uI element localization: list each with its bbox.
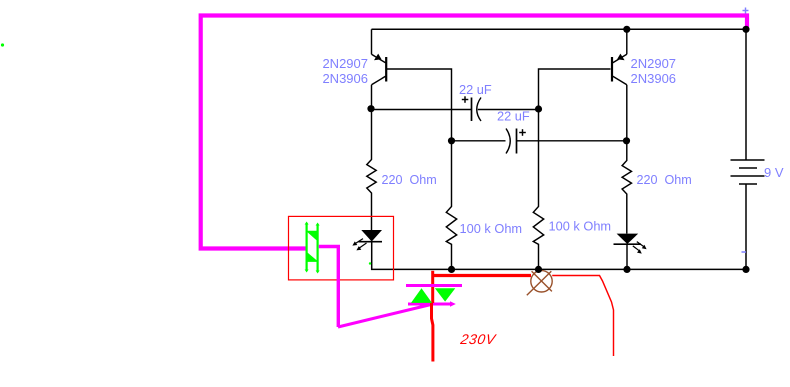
wire: node A to C1 left plate <box>372 109 472 111</box>
svg-text:2N2907: 2N2907 <box>322 56 368 71</box>
wire: Q1 base line to node C <box>387 69 452 141</box>
LED D2 (right branch) <box>614 234 647 270</box>
resistor R2 220 Ohm (right branch) with leads <box>622 141 631 234</box>
capacitor C2 22uF (polarized, + on right) <box>506 129 526 154</box>
triac T1 bottom bar (magenta, with arrow tip) <box>408 301 456 306</box>
junction dot: top rail at battery top <box>742 26 749 33</box>
svg-text:22 uF: 22 uF <box>497 109 530 124</box>
stray green dot (top left) <box>1 43 4 46</box>
wire: C1 right plate to node B <box>478 109 539 111</box>
wire: node C to C2 left arc <box>452 140 506 142</box>
wire: C2 right plate to node D <box>517 140 627 142</box>
junction node D (Q2 collector / C2 right) <box>623 137 630 144</box>
wire: LED D1 cathode to bottom rail corner <box>372 242 746 270</box>
resistor R4 100 k Ohm (Q2 base bias) with leads, crosses C2 line without junction <box>533 110 543 270</box>
wire: magenta mains supply loop (left vertical, top horizontal, right drop, lower horizontal into optocoupler) <box>201 16 747 249</box>
optocoupler U1 box (red) <box>289 216 394 280</box>
svg-text:220 Ohm: 220 Ohm <box>382 173 437 187</box>
junction node B (C1 right / Q2 base / R4 top) <box>535 105 542 112</box>
resistor R1 220 Ohm (left branch) with leads <box>367 110 376 231</box>
optocoupler photo-triac (green) <box>305 222 320 274</box>
junction dot: rail at R3 bottom <box>448 266 455 273</box>
wire: thin red from lamp to mains drop <box>552 276 613 357</box>
svg-text:220 Ohm: 220 Ohm <box>637 173 692 187</box>
resistor R3 100 k Ohm (Q1 base bias) with leads <box>446 141 456 270</box>
battery B1 9V <box>731 29 765 269</box>
stray green dot at LED D1 cathode <box>369 262 371 264</box>
junction dot: rail at LED D2 <box>623 266 630 273</box>
node: supply + polarity mark (top right) <box>743 8 749 14</box>
svg-text:9 V: 9 V <box>764 165 784 180</box>
svg-text:2N2907: 2N2907 <box>631 56 677 71</box>
junction node A (Q1 collector / C1 left) <box>367 105 374 112</box>
svg-text:22 uF: 22 uF <box>459 82 492 97</box>
capacitor C1 22uF (polarized, + on left) <box>462 96 481 121</box>
svg-text:230V: 230V <box>459 331 498 347</box>
wire: magenta from photo-triac to gate drop <box>319 247 339 328</box>
transistor Q2 2N2907/2N3906 (right PNP, mirrored) <box>612 29 627 141</box>
svg-text:100 k Ohm: 100 k Ohm <box>549 219 612 234</box>
triac T1 top bar (magenta) <box>406 284 462 287</box>
wire: top positive rail <box>372 28 747 30</box>
wire: node B up to Q2 base line <box>539 69 611 110</box>
junction dot at Q2 emitter on top rail <box>623 26 630 33</box>
transistor Q1 2N2907/2N3906 (left PNP) <box>372 29 387 109</box>
svg-text:100 k Ohm: 100 k Ohm <box>460 221 523 236</box>
wire: magenta diagonal to triac gate <box>338 305 431 328</box>
junction dot: rail at R4 bottom (over lamp) <box>535 266 542 273</box>
lamp L1 (brown circle with X) <box>527 271 552 296</box>
junction node C (Q1 base / C2 line left) <box>448 137 455 144</box>
label battery minus mark <box>742 251 747 253</box>
junction dot: rail at battery bottom <box>742 266 749 273</box>
LED D1 (in optocoupler box) <box>352 230 382 250</box>
svg-text:2N3906: 2N3906 <box>631 71 677 86</box>
triac T1 green triangles <box>411 288 455 303</box>
svg-text:2N3906: 2N3906 <box>322 71 368 86</box>
wire: red mains live (vertical through triac + thick run to lamp) <box>432 271 532 362</box>
